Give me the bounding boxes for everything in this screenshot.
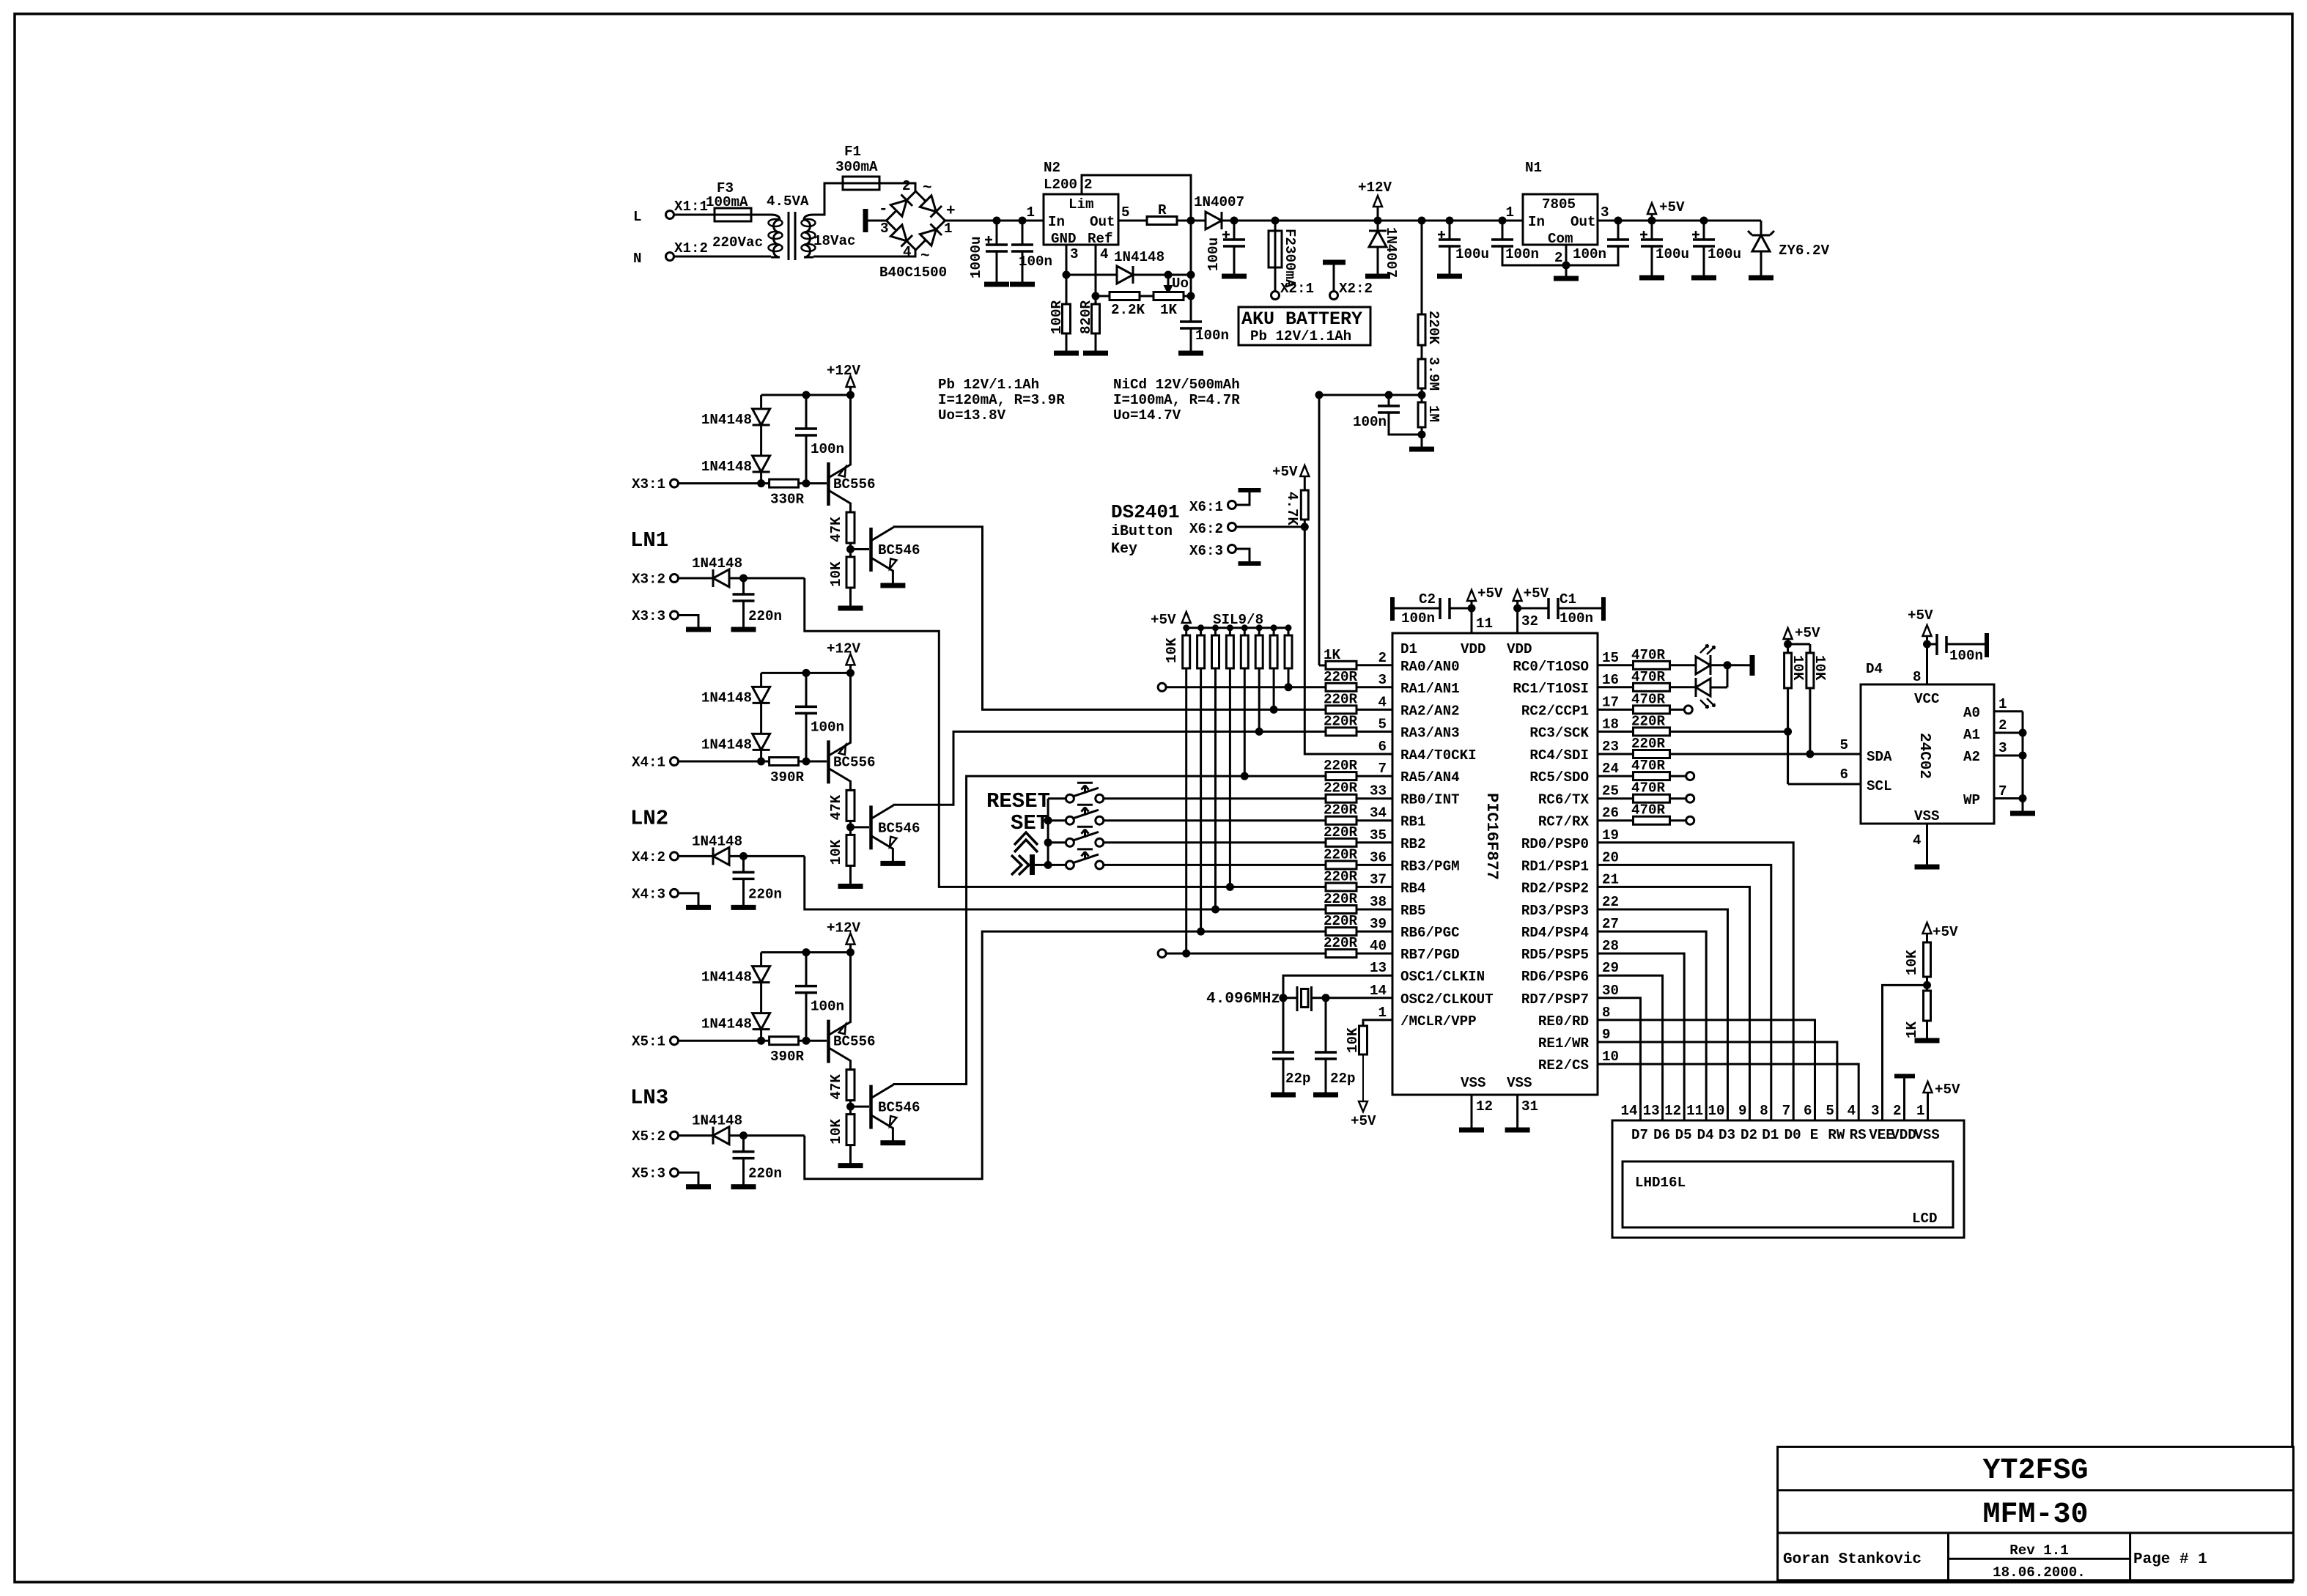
wire switch common bus — [1044, 799, 1052, 869]
ground under 820R — [1083, 351, 1108, 356]
svg-text:RA0/AN0: RA0/AN0 — [1400, 659, 1460, 675]
svg-text:3: 3 — [1998, 740, 2007, 756]
svg-text:10K: 10K — [828, 561, 844, 587]
pin 36 RB3/PGM — [1324, 846, 1460, 874]
svg-text:27: 27 — [1602, 916, 1619, 932]
svg-text:Uo=14.7V: Uo=14.7V — [1113, 407, 1181, 424]
svg-text:47K: 47K — [828, 517, 844, 542]
wire +12V rail to 7805 — [1378, 217, 1523, 225]
pin 2 of 7805 — [1554, 245, 1570, 277]
svg-text:10K: 10K — [828, 1119, 844, 1145]
capacitor 100n base (LN3) — [795, 953, 844, 1041]
svg-text:32: 32 — [1521, 613, 1538, 629]
svg-text:+5V: +5V — [1151, 612, 1176, 628]
svg-text:Com: Com — [1548, 231, 1573, 247]
capacitor 220n (LN1) — [733, 578, 783, 628]
wire diode to node (LN3) — [729, 1131, 805, 1139]
svg-text:4: 4 — [903, 244, 912, 260]
svg-text:RB4: RB4 — [1400, 880, 1426, 896]
title block frame — [1778, 1447, 2294, 1580]
svg-text:2: 2 — [902, 178, 911, 194]
node divider (LN2) — [846, 821, 854, 835]
svg-text:2: 2 — [1378, 650, 1387, 666]
wire LN2 collector to RA2 row — [893, 728, 1326, 805]
svg-text:X2:1: X2:1 — [1280, 281, 1314, 297]
pin 20 RD1/PSP1 — [1521, 849, 1619, 874]
svg-text:RS: RS — [1850, 1127, 1867, 1143]
svg-text:100R: 100R — [1049, 300, 1065, 334]
wire LN3 collector to RA5 row — [893, 772, 1326, 1085]
power +5V arrow (pin11) — [1467, 585, 1503, 608]
svg-text:RD1/PSP1: RD1/PSP1 — [1521, 858, 1589, 874]
pin 13 OSC1/CLKIN — [1370, 960, 1485, 985]
resistor 470R (pin row y907) — [1598, 647, 1670, 670]
svg-text:220n: 220n — [748, 1166, 782, 1182]
pin 3 RA1/AN1 — [1324, 669, 1460, 697]
connector X3:2 — [632, 572, 679, 588]
pin 38 RB5 — [1324, 891, 1426, 919]
svg-text:8: 8 — [1602, 1005, 1611, 1021]
svg-text:X3:2: X3:2 — [632, 572, 665, 588]
ground under 7805-in 100u — [1437, 274, 1462, 279]
wire /MCLR to 10K — [1363, 1020, 1392, 1023]
svg-text:11: 11 — [1476, 616, 1493, 632]
power +5V arrow (24C02) — [1908, 607, 1933, 644]
ground under 10K (LN2) — [838, 865, 863, 886]
svg-text:D7: D7 — [1631, 1127, 1648, 1143]
svg-text:Uo: Uo — [1172, 276, 1189, 292]
note Pb battery — [938, 377, 1065, 424]
pin 27 RD4/PSP4 — [1521, 916, 1619, 941]
svg-text:17: 17 — [1602, 694, 1619, 710]
wire RE2 to LCD RS — [1598, 1064, 1858, 1120]
wire RE1 to LCD RW — [1598, 1042, 1837, 1120]
title author — [1783, 1551, 1922, 1568]
wire RC6 open — [1670, 794, 1694, 802]
wire bridge+ to L200 In — [945, 217, 1044, 225]
svg-text:220K: 220K — [1425, 311, 1442, 345]
capacitor C1 100n — [1518, 591, 1603, 627]
wire 330R to BC556 (LN1) — [799, 479, 827, 487]
svg-text:100u: 100u — [1655, 246, 1689, 262]
svg-text:RB2: RB2 — [1400, 836, 1426, 852]
wire RE0 to LCD E — [1598, 1020, 1815, 1120]
svg-text:F1: F1 — [844, 144, 861, 160]
svg-text:RC5/SDO: RC5/SDO — [1529, 769, 1589, 786]
svg-text:2.2K: 2.2K — [1111, 302, 1145, 318]
svg-text:PIC16F877: PIC16F877 — [1483, 793, 1501, 880]
svg-text:RD0/PSP0: RD0/PSP0 — [1521, 836, 1589, 852]
svg-text:220R: 220R — [1324, 935, 1358, 951]
capacitor 220n (LN3) — [733, 1136, 783, 1186]
wire LED common — [1710, 661, 1743, 687]
svg-text:12: 12 — [1476, 1098, 1493, 1115]
diode 1N4148 D-a (LN2) — [701, 673, 770, 706]
svg-text:47K: 47K — [828, 1074, 844, 1100]
resistor 47K (LN3) — [828, 1070, 854, 1101]
svg-text:100n: 100n — [1559, 610, 1593, 627]
svg-text:X4:3: X4:3 — [632, 886, 665, 902]
pin 40 RB7/PGD — [1324, 935, 1460, 963]
note NiCd battery — [1113, 377, 1240, 424]
wire X3:3 to ground — [679, 616, 699, 629]
wire X1:1 to F3 — [673, 214, 715, 216]
pin 16 RC1/T1OSI — [1513, 672, 1619, 697]
svg-text:RA1/AN1: RA1/AN1 — [1400, 681, 1460, 697]
svg-text:LN3: LN3 — [630, 1086, 668, 1110]
svg-text:OSC1/CLKIN: OSC1/CLKIN — [1400, 969, 1485, 985]
svg-text:15: 15 — [1602, 650, 1619, 666]
svg-text:3: 3 — [1070, 246, 1079, 262]
label LHD16L — [1635, 1175, 1686, 1191]
svg-text:100n: 100n — [1401, 610, 1435, 627]
resistor 820R — [1078, 296, 1100, 352]
svg-text:E: E — [1810, 1127, 1819, 1143]
wire 220K-3.9M — [1421, 345, 1423, 359]
ground under 220n (LN3) — [731, 1184, 756, 1189]
connector X5:3 — [632, 1166, 679, 1182]
svg-text:10K: 10K — [828, 839, 844, 865]
label VDD pins — [1461, 641, 1532, 657]
svg-text:300mA: 300mA — [835, 159, 878, 175]
svg-text:470R: 470R — [1631, 647, 1666, 663]
resistor 220R (pin row y1029) — [1598, 736, 1670, 758]
connector X3:3 — [632, 608, 679, 624]
zener ZY6.2V — [1748, 221, 1830, 276]
pin 8 VCC — [1913, 640, 1931, 686]
title YT2FSG — [1982, 1455, 2088, 1488]
pin 2 A1 — [1963, 717, 2027, 743]
label LCD — [1912, 1211, 1938, 1227]
svg-text:RD2/PSP2: RD2/PSP2 — [1521, 880, 1589, 896]
svg-text:VSS: VSS — [1461, 1075, 1486, 1091]
pin 4 RA2/AN2 — [1324, 691, 1460, 719]
svg-text:Lim: Lim — [1068, 196, 1094, 213]
capacitor 100n base (LN1) — [795, 395, 844, 484]
svg-text:100n: 100n — [1949, 648, 1983, 664]
pin 9 RE1/WR — [1538, 1027, 1611, 1052]
resistor 47K (LN2) — [828, 790, 854, 821]
label LN3 — [630, 1086, 668, 1110]
label pin6 SCL — [1839, 766, 1848, 783]
svg-text:VDD: VDD — [1507, 641, 1532, 657]
power +12V arrow — [1358, 180, 1392, 221]
pin 22 RD3/PSP3 — [1521, 894, 1619, 919]
wire diodes to input row (LN3) — [757, 1030, 765, 1045]
terminal bar at bridge minus — [865, 209, 887, 232]
svg-text:RC2/CCP1: RC2/CCP1 — [1521, 703, 1589, 719]
resistor 100R — [1049, 275, 1071, 352]
node RB7 test point — [1158, 950, 1326, 958]
pin 15 RC0/T1OSO — [1513, 650, 1619, 675]
svg-text:D4: D4 — [1697, 1127, 1714, 1143]
wire secondary bottom to bridge pin4 — [813, 250, 915, 256]
diode 1N4148 D-b (LN1) — [701, 425, 770, 475]
svg-text:X5:2: X5:2 — [632, 1128, 665, 1145]
svg-text:BC556: BC556 — [833, 755, 876, 771]
svg-text:GND: GND — [1051, 231, 1077, 247]
svg-text:12: 12 — [1664, 1103, 1681, 1119]
capacitor 22p (a) — [1272, 1052, 1311, 1093]
svg-text:3: 3 — [1601, 204, 1609, 221]
svg-text:220R: 220R — [1324, 891, 1358, 907]
wire LN1 collector to RA1 row — [893, 527, 1326, 714]
label chevron up — [1014, 832, 1038, 852]
svg-text:RA5/AN4: RA5/AN4 — [1400, 769, 1460, 786]
svg-text:X5:3: X5:3 — [632, 1166, 665, 1182]
svg-text:Page # 1: Page # 1 — [2133, 1551, 2207, 1568]
connector X6:1 — [1189, 490, 1261, 515]
wire R to node — [1177, 217, 1195, 225]
svg-text:470R: 470R — [1631, 669, 1666, 685]
ground under charger 100u — [1222, 274, 1247, 279]
ground 24C02 addr — [2010, 811, 2035, 816]
svg-text:N2: N2 — [1044, 160, 1060, 176]
svg-text:X3:3: X3:3 — [632, 608, 665, 624]
svg-text:Key: Key — [1111, 541, 1137, 558]
resistor 10K (LN2) — [828, 835, 854, 865]
node RA1 test point — [1158, 683, 1326, 691]
svg-text:6: 6 — [1804, 1103, 1812, 1119]
svg-text:VDD: VDD — [1461, 641, 1486, 657]
svg-text:SDA: SDA — [1867, 749, 1892, 765]
svg-text:1N4148: 1N4148 — [692, 1113, 742, 1129]
svg-text:1: 1 — [1916, 1103, 1925, 1119]
diode 1N4007 (charge) — [1191, 194, 1244, 229]
svg-text:4: 4 — [1848, 1103, 1856, 1119]
switch S2 (SET) — [1048, 805, 1326, 824]
resistor 10K (MCLR) — [1345, 1023, 1367, 1054]
ground under BC546 (LN2) — [880, 861, 905, 866]
svg-text:5: 5 — [1121, 204, 1130, 221]
svg-text:10: 10 — [1708, 1103, 1724, 1119]
ground 24C02 VSS — [1915, 865, 1940, 870]
pin 31 VSS — [1518, 1095, 1538, 1128]
svg-text:VDD: VDD — [1891, 1127, 1916, 1143]
wire RC2 open — [1670, 706, 1693, 714]
pin 29 RD6/PSP6 — [1521, 960, 1619, 985]
switch S4 (DOWN) — [1048, 849, 1326, 869]
ground under 220n (LN2) — [731, 905, 756, 910]
resistor 2.2K — [1096, 292, 1145, 319]
svg-text:VCC: VCC — [1914, 691, 1940, 707]
wire diodes to input row (LN1) — [757, 472, 765, 487]
title page — [2133, 1551, 2207, 1568]
wire X5:2 to RB6 row — [805, 928, 1326, 1179]
svg-text:RESET: RESET — [986, 789, 1050, 813]
capacitor 100n (L200 input) — [1011, 221, 1052, 282]
wire A0-WP bus — [2022, 712, 2024, 812]
svg-text:RB7/PGD: RB7/PGD — [1400, 947, 1460, 963]
svg-text:X5:1: X5:1 — [632, 1034, 665, 1050]
wire RD6 PSP to LCD D6 — [1598, 975, 1663, 1120]
svg-text:BC546: BC546 — [878, 542, 920, 558]
connector X2:1 — [1271, 281, 1315, 300]
wire Ref pin4 down — [1092, 245, 1109, 300]
diode 1N4148 (L200 fb) — [1066, 249, 1164, 284]
transformer TR1 4.5VA — [712, 193, 856, 260]
svg-text:820R: 820R — [1078, 300, 1094, 334]
resistor 220K — [1418, 311, 1442, 345]
svg-text:X2:2: X2:2 — [1339, 281, 1373, 297]
label 24C02 — [1916, 733, 1933, 779]
svg-text:220R: 220R — [1324, 780, 1358, 797]
svg-text:Out: Out — [1570, 214, 1596, 230]
wire RD7 PSP to LCD D7 — [1598, 998, 1641, 1120]
svg-text:18: 18 — [1602, 716, 1619, 732]
svg-text:390R: 390R — [770, 1049, 805, 1065]
svg-text:LN1: LN1 — [630, 528, 668, 553]
svg-text:RB0/INT: RB0/INT — [1400, 792, 1460, 808]
connector X5:1 — [632, 1034, 679, 1050]
wire diodes to input row (LN2) — [757, 750, 765, 765]
title rev — [2009, 1543, 2069, 1559]
wire F3 to transformer — [751, 214, 771, 216]
svg-text:~: ~ — [920, 248, 930, 265]
wire secondary to F1 — [813, 183, 843, 215]
svg-text:RB6/PGC: RB6/PGC — [1400, 925, 1460, 941]
svg-text:9: 9 — [1602, 1027, 1611, 1043]
svg-text:RE2/CS: RE2/CS — [1538, 1057, 1589, 1074]
diode 1N4148 input (LN3) — [679, 1113, 743, 1145]
svg-text:470R: 470R — [1631, 758, 1666, 774]
svg-text:BC546: BC546 — [878, 820, 920, 836]
svg-text:5: 5 — [1378, 716, 1387, 732]
svg-text:-: - — [879, 202, 888, 218]
svg-text:+5V: +5V — [1659, 199, 1685, 215]
resistor 1K (contrast) — [1904, 991, 1931, 1038]
svg-text:25: 25 — [1602, 783, 1619, 799]
svg-text:BC556: BC556 — [833, 1034, 876, 1050]
svg-text:RC3/SCK: RC3/SCK — [1529, 725, 1589, 741]
wire fb diode to node — [1133, 271, 1195, 279]
label PIC16F877 — [1483, 793, 1501, 880]
terminal bar LED — [1743, 655, 1752, 676]
capacitor 100n base (LN2) — [795, 673, 844, 761]
terminal bar LCD VDD — [1894, 1076, 1915, 1121]
pin 32 VDD — [1513, 605, 1538, 634]
IC U1 PIC16F877 box — [1392, 633, 1598, 1095]
wire RD2 PSP to LCD D2 — [1598, 887, 1750, 1120]
svg-text:21: 21 — [1602, 871, 1619, 887]
svg-text:+5V: +5V — [1935, 1082, 1960, 1098]
svg-text:+12V: +12V — [827, 363, 861, 379]
svg-text:D6: D6 — [1653, 1127, 1670, 1143]
fuse F1 — [835, 144, 879, 190]
svg-text:6: 6 — [1378, 739, 1387, 755]
LED duo (RC0) — [1670, 655, 1711, 675]
pot 1K — [1140, 292, 1195, 319]
svg-text:D1: D1 — [1762, 1127, 1779, 1143]
svg-text:+5V: +5V — [1908, 607, 1933, 624]
pin 1 A0 — [1963, 696, 2023, 721]
wire +12V rail (LN2) — [761, 669, 854, 677]
label pin5 SDA — [1839, 737, 1848, 753]
pin 33 RB0/INT — [1324, 780, 1460, 808]
svg-text:RW: RW — [1828, 1127, 1845, 1143]
diode 1N4148 input (LN2) — [679, 833, 743, 865]
diode 1N4148 D-a (LN3) — [701, 953, 770, 986]
svg-text:1: 1 — [1378, 1005, 1387, 1021]
svg-text:40: 40 — [1370, 938, 1387, 954]
svg-text:DS2401: DS2401 — [1111, 501, 1180, 523]
svg-text:In: In — [1048, 214, 1065, 230]
LCD inner box — [1623, 1161, 1953, 1227]
svg-text:100n: 100n — [1019, 254, 1052, 270]
wire diode to node (LN2) — [729, 852, 805, 860]
regulator N2 L200 box — [1026, 160, 1129, 247]
regulator N1 7805 box — [1505, 160, 1609, 247]
svg-text:28: 28 — [1602, 938, 1619, 954]
svg-text:N: N — [633, 251, 642, 267]
svg-text:1N4148: 1N4148 — [701, 736, 752, 753]
power +5V arrow (LCD VSS) — [1924, 1082, 1961, 1120]
ground under fb 100n — [1178, 351, 1203, 356]
svg-text:36: 36 — [1370, 849, 1387, 865]
svg-text:RB3/PGM: RB3/PGM — [1400, 858, 1460, 874]
ground under 22p a — [1271, 1093, 1296, 1098]
resistor 330R (LN1) — [769, 479, 805, 508]
svg-text:+5V: +5V — [1524, 585, 1549, 602]
svg-text:VSS: VSS — [1914, 1127, 1940, 1143]
svg-text:L200: L200 — [1044, 177, 1077, 193]
ground under BC546 (LN1) — [880, 583, 905, 588]
wire RC7 open — [1670, 816, 1694, 824]
svg-text:+: + — [946, 203, 956, 220]
svg-text:2: 2 — [1893, 1103, 1902, 1119]
svg-text:4: 4 — [1100, 246, 1109, 262]
svg-text:Pb 12V/1.1Ah: Pb 12V/1.1Ah — [1250, 328, 1351, 344]
svg-text:100n: 100n — [1353, 414, 1387, 430]
svg-text:LN2: LN2 — [630, 806, 668, 830]
diode 1N4148 D-a (LN1) — [701, 395, 770, 428]
svg-text:1N4148: 1N4148 — [692, 555, 742, 572]
wire X4:2 to RB5 row — [805, 856, 1326, 913]
ground under 100R — [1054, 351, 1079, 356]
svg-text:1000u: 1000u — [968, 236, 984, 278]
svg-text:SET: SET — [1011, 811, 1049, 835]
pin 25 RC6/TX — [1538, 783, 1619, 808]
wire F1 to bridge pin2 — [879, 183, 915, 191]
svg-text:X6:3: X6:3 — [1189, 543, 1223, 559]
wire SDI/SDA — [1670, 750, 1861, 758]
pin 19 RD0/PSP0 — [1521, 827, 1619, 852]
label LN1 — [630, 528, 668, 553]
svg-text:23: 23 — [1602, 739, 1619, 755]
bridge rectifier B40C1500 — [879, 178, 956, 281]
svg-text:37: 37 — [1370, 871, 1387, 887]
diode 1N4148 D-b (LN3) — [701, 983, 770, 1032]
svg-text:+5V: +5V — [1477, 585, 1503, 602]
svg-text:+12V: +12V — [1358, 180, 1392, 196]
ground under 5V 100u a — [1639, 276, 1664, 281]
svg-text:220R: 220R — [1324, 713, 1358, 729]
svg-text:RC1/T1OSI: RC1/T1OSI — [1513, 681, 1589, 697]
svg-text:+5V: +5V — [1933, 924, 1958, 940]
capacitor 100u (7805 in) — [1438, 221, 1489, 274]
capacitor 220n (LN2) — [733, 856, 783, 906]
wire X1:2 to transformer — [673, 256, 771, 258]
svg-text:RC4/SDI: RC4/SDI — [1529, 747, 1589, 764]
wire In pin1 — [1043, 220, 1045, 222]
svg-text:4.7K: 4.7K — [1284, 492, 1300, 526]
wire +12V rail (LN1) — [761, 391, 854, 399]
wire X4:1 to base (LN2) — [679, 761, 769, 763]
svg-text:14: 14 — [1620, 1103, 1637, 1119]
resistor 470R (pin row y1119) — [1598, 802, 1670, 825]
label SET — [1011, 811, 1049, 835]
svg-text:1N4007: 1N4007 — [1194, 194, 1244, 210]
